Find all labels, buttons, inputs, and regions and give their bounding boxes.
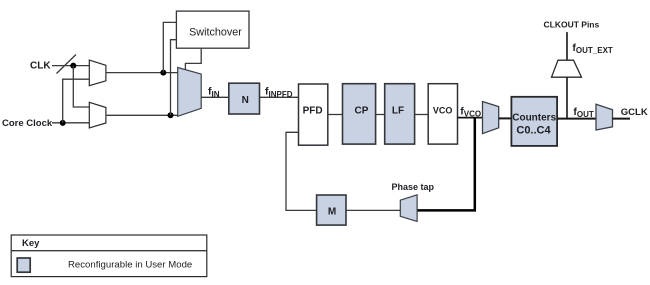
wire external buffer down to fOUT line xyxy=(566,77,568,118)
wire GCLK output xyxy=(613,118,631,120)
input mux bottom (Core Clock select buffer) xyxy=(89,102,106,128)
svg-text:PFD: PFD xyxy=(303,105,323,116)
PFD block xyxy=(299,84,328,145)
svg-text:M: M xyxy=(328,206,336,217)
svg-text:CLKOUT Pins: CLKOUT Pins xyxy=(544,19,600,29)
external clock output buffer (trapezoid up) xyxy=(552,60,582,77)
wire junction up to Switchover input 1 xyxy=(163,22,176,72)
post-VCO mux (reconfigurable) xyxy=(483,102,499,134)
wire CLK to top input mux xyxy=(52,65,89,67)
Switchover block xyxy=(176,11,249,48)
LF block (loop filter, reconfigurable) xyxy=(385,84,415,144)
bus slash on CLK wire xyxy=(57,55,77,74)
wire phase tap to M xyxy=(346,209,400,211)
svg-text:LF: LF xyxy=(392,105,404,116)
wire junction up to Switchover input 2 xyxy=(171,40,177,116)
svg-text:C0..C4: C0..C4 xyxy=(516,125,551,137)
wire CLKOUT pins to external buffer xyxy=(566,32,568,60)
wire M to PFD feedback input xyxy=(286,132,317,210)
counter N xyxy=(229,83,260,114)
svg-text:VCO: VCO xyxy=(433,106,453,116)
wire Core Clock to bottom input mux xyxy=(52,122,89,124)
node junction on CLK wire xyxy=(70,63,76,69)
wire PFD to CP xyxy=(328,114,343,116)
svg-text:N: N xyxy=(242,95,249,106)
wire CLK cross down to bottom input mux xyxy=(73,66,89,107)
svg-text:Counters: Counters xyxy=(512,112,556,123)
svg-text:GCLK: GCLK xyxy=(621,107,648,118)
svg-text:CLK: CLK xyxy=(30,61,51,72)
GCLK output mux (reconfigurable) xyxy=(596,104,613,130)
input mux top (CLK select buffer) xyxy=(89,60,106,86)
CP block (charge pump, reconfigurable) xyxy=(343,84,376,144)
VCO block xyxy=(428,84,457,144)
key swatch reconfigurable xyxy=(17,258,30,272)
wire top mux output to main mux xyxy=(106,72,178,74)
Counters C0..C4 block (reconfigurable) xyxy=(511,97,557,146)
svg-text:CP: CP xyxy=(355,105,369,116)
svg-text:Phase tap: Phase tap xyxy=(392,182,435,192)
wire feedback from fVCO down to phase tap (thick) xyxy=(417,117,475,210)
node junction top mux output xyxy=(160,70,166,76)
svg-text:Key: Key xyxy=(22,238,40,249)
wire Core Clock cross up to top input mux xyxy=(63,79,90,123)
counter M (feedback divider, reconfigurable) xyxy=(317,195,346,225)
svg-text:Core Clock: Core Clock xyxy=(2,118,53,129)
wire mux to Counters xyxy=(499,117,512,119)
main input mux (reconfigurable) xyxy=(178,68,202,117)
wire fIN: main mux to N counter xyxy=(201,96,229,98)
wire bottom mux output to main mux xyxy=(106,114,178,116)
wire fOUT: Counters to GCLK mux xyxy=(557,118,596,120)
wire LF to VCO xyxy=(415,114,429,116)
node junction bottom mux output xyxy=(168,112,174,118)
wire Switchover select to main mux xyxy=(185,48,201,70)
phase tap mux (reconfigurable, points left) xyxy=(400,195,417,222)
wire fINPFD: N to PFD xyxy=(260,96,299,98)
wire fVCO: VCO to post-scale mux xyxy=(458,117,483,119)
svg-text:Reconfigurable in User Mode: Reconfigurable in User Mode xyxy=(68,260,192,271)
svg-text:Switchover: Switchover xyxy=(189,27,242,39)
key legend box xyxy=(11,235,207,277)
wire CP to LF xyxy=(376,114,385,116)
node junction on Core Clock wire xyxy=(60,120,66,126)
